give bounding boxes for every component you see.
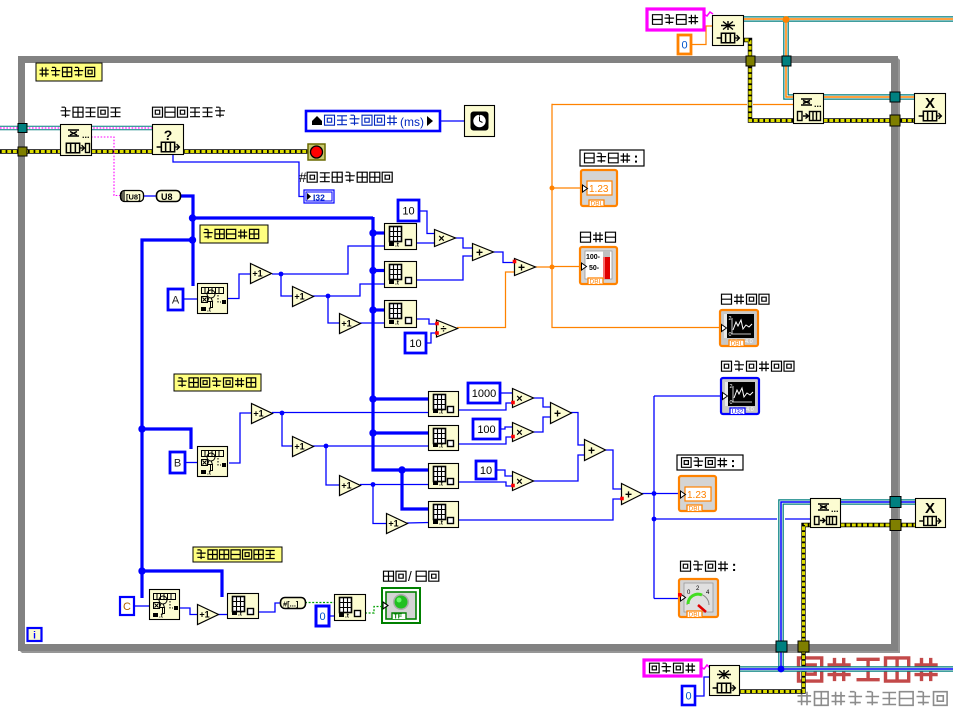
svg-text:0: 0 (730, 400, 733, 406)
svg-text:0: 0 (685, 690, 691, 702)
svg-text:2: 2 (729, 316, 732, 322)
svg-text:×: × (438, 233, 444, 245)
svg-text:+1: +1 (388, 519, 398, 529)
svg-text:4.0: 4.0 (745, 339, 753, 345)
svg-text:+: + (554, 406, 561, 420)
svg-text:10: 10 (402, 205, 414, 217)
svg-text:DBL: DBL (689, 506, 702, 513)
svg-text:/: / (408, 569, 412, 584)
svg-text:100-: 100- (586, 254, 601, 261)
svg-text:+1: +1 (341, 481, 351, 491)
svg-text:...: ... (831, 504, 839, 514)
svg-text:[U8]: [U8] (126, 193, 141, 202)
svg-text:0: 0 (319, 611, 325, 623)
svg-text:×: × (516, 393, 522, 405)
svg-text:+: + (625, 487, 632, 501)
svg-text:2: 2 (730, 384, 733, 390)
svg-text:DBL: DBL (590, 279, 603, 286)
svg-text:÷: ÷ (440, 323, 446, 335)
svg-text:+: + (476, 245, 483, 259)
svg-text:+1: +1 (294, 292, 304, 302)
svg-text:0: 0 (681, 39, 687, 51)
svg-text:+1: +1 (253, 409, 263, 419)
svg-text:×: × (516, 427, 522, 439)
svg-text:+1: +1 (294, 442, 304, 452)
svg-text:10: 10 (409, 338, 421, 350)
svg-text:A: A (172, 294, 180, 306)
svg-text:U32: U32 (732, 409, 744, 416)
svg-text:50-: 50- (589, 265, 600, 272)
svg-text:×: × (516, 476, 522, 488)
svg-text:#[...]: #[...] (283, 599, 299, 608)
svg-text:+1: +1 (252, 269, 262, 279)
svg-text:(ms): (ms) (400, 115, 424, 129)
svg-text:...: ... (82, 130, 90, 140)
svg-text:DBL: DBL (731, 341, 744, 348)
svg-text:4.0: 4.0 (746, 407, 754, 413)
svg-text:#: # (299, 170, 307, 185)
svg-text:...: ... (814, 99, 822, 109)
svg-text:+: + (518, 260, 525, 274)
svg-text:X: X (925, 95, 935, 112)
svg-text:0: 0 (729, 332, 732, 338)
svg-text:B: B (174, 457, 181, 469)
svg-text:X: X (925, 500, 935, 517)
svg-text:TF: TF (394, 613, 403, 620)
svg-text:1.23: 1.23 (687, 490, 707, 501)
svg-text:DBL: DBL (689, 612, 702, 619)
svg-text:I32: I32 (313, 192, 325, 202)
svg-text:DBL: DBL (591, 201, 604, 208)
svg-text:10: 10 (480, 465, 492, 477)
svg-text:i: i (33, 631, 36, 642)
svg-text:1000: 1000 (472, 388, 496, 400)
svg-text:1.23: 1.23 (589, 184, 609, 195)
svg-text:+1: +1 (341, 319, 351, 329)
svg-text:+1: +1 (199, 610, 209, 620)
svg-text:C: C (123, 601, 131, 613)
svg-text:U8: U8 (161, 192, 173, 202)
svg-text:+: + (588, 443, 595, 457)
svg-text:100: 100 (477, 424, 495, 436)
svg-text:?: ? (164, 127, 173, 143)
